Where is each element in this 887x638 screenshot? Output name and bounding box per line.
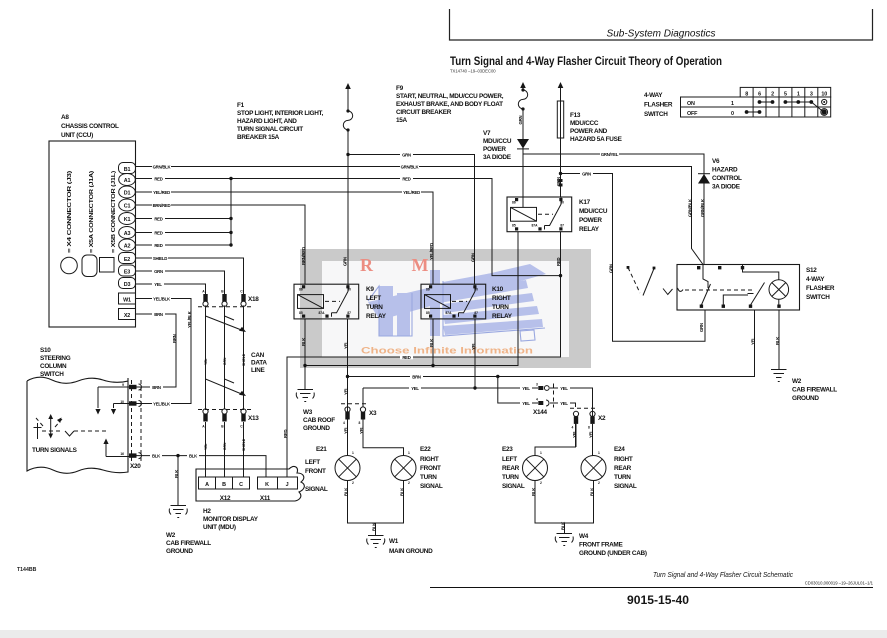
X20 connector pins (120, 380, 141, 462)
node F13 junction (559, 172, 562, 175)
svg-text:X13: X13 (248, 415, 259, 422)
header bracket (450, 9, 873, 40)
W2 right ground symbol (771, 370, 787, 382)
svg-text:GRN: GRN (154, 269, 163, 274)
svg-text:RED: RED (154, 216, 162, 221)
svg-text:X11: X11 (260, 495, 271, 502)
svg-text:EXHAUST BRAKE, AND BODY FLOAT: EXHAUST BRAKE, AND BODY FLOAT (396, 101, 503, 108)
pin D3 (119, 278, 136, 289)
svg-text:1: 1 (408, 451, 410, 455)
svg-text:87A: 87A (318, 311, 325, 315)
svg-text:YEL: YEL (411, 386, 419, 391)
svg-text:3A DIODE: 3A DIODE (712, 184, 741, 191)
svg-text:RIGHT: RIGHT (614, 456, 633, 463)
wire E23 E24 ground to W4 (535, 481, 594, 534)
svg-text:8: 8 (359, 421, 361, 425)
svg-text:BRN/RED: BRN/RED (153, 203, 171, 208)
pin A1 (119, 174, 136, 186)
svg-text:DATA: DATA (251, 360, 267, 367)
svg-text:W1: W1 (389, 538, 399, 545)
E23 label (502, 446, 525, 490)
svg-text:Turn Signal and 4-Way Flasher: Turn Signal and 4-Way Flasher Circuit Sc… (653, 572, 793, 579)
svg-text:87: 87 (560, 224, 564, 228)
pin A3 (119, 227, 136, 239)
S10 steering column switch box wavy (27, 377, 128, 473)
A8 chassis control unit box (49, 141, 136, 327)
svg-text:GRN: GRN (223, 442, 227, 450)
wire CAN lines X18 to X13 to MDU (206, 306, 244, 478)
svg-text:D1: D1 (124, 191, 131, 197)
svg-text:J: J (286, 482, 289, 488)
svg-text:COLUMN: COLUMN (40, 363, 67, 370)
V6 label (712, 158, 742, 191)
F1 label (237, 102, 323, 141)
X11 pin boxes K J (258, 477, 298, 489)
svg-text:Choose Infinite Information: Choose Infinite Information (361, 346, 533, 356)
svg-text:YEL: YEL (154, 282, 162, 287)
svg-text:X3: X3 (369, 410, 377, 417)
svg-text:1: 1 (540, 451, 542, 455)
svg-text:YEL: YEL (359, 426, 364, 434)
svg-text:3A DIODE: 3A DIODE (483, 154, 512, 161)
svg-text:C: C (239, 482, 243, 488)
pin C1 (119, 199, 136, 211)
svg-text:Sub-System Diagnostics: Sub-System Diagnostics (607, 29, 716, 40)
svg-text:87: 87 (347, 311, 351, 315)
pin X2 (119, 309, 136, 320)
W1 label (389, 538, 433, 555)
svg-text:1: 1 (797, 92, 800, 98)
svg-text:T144BB: T144BB (17, 567, 37, 573)
connector X13 (198, 409, 252, 429)
S12 top pin squares (697, 266, 744, 269)
svg-text:2: 2 (598, 481, 600, 485)
svg-text:4-WAY: 4-WAY (644, 92, 663, 99)
wire BRN/RED net C1 to K9-86 (136, 205, 306, 284)
H2 label (203, 508, 259, 531)
svg-text:E24: E24 (614, 446, 625, 453)
svg-text:4: 4 (536, 398, 538, 402)
svg-text:RED: RED (154, 243, 162, 248)
svg-text:GRN/BLK: GRN/BLK (700, 198, 705, 217)
svg-text:TURN SIGNALS: TURN SIGNALS (32, 447, 78, 454)
node left bus junctions (346, 375, 500, 378)
V7 diode (517, 139, 529, 149)
W2 right label (792, 378, 837, 402)
pin K1 (119, 213, 136, 225)
svg-text:GRN/BLK: GRN/BLK (688, 198, 693, 217)
S12 lamp feed wire (743, 265, 779, 280)
svg-text:A1: A1 (124, 178, 131, 184)
svg-text:YEL: YEL (572, 430, 577, 438)
W2 left ground symbol (169, 506, 187, 518)
svg-text:LINE: LINE (251, 367, 265, 374)
wire F13 vertical to K17-30 (560, 88, 562, 197)
svg-text:= X5B CONNECTOR (J1L): = X5B CONNECTOR (J1L) (111, 170, 117, 253)
CAN twist upper (206, 316, 247, 332)
svg-text:= X4 CONNECTOR (J3): = X4 CONNECTOR (J3) (67, 170, 73, 253)
K10 label (492, 286, 513, 320)
svg-text:A2: A2 (124, 244, 131, 250)
svg-text:FLASHER: FLASHER (644, 102, 673, 109)
svg-text:TX14740 –19–03DEC00: TX14740 –19–03DEC00 (450, 69, 496, 74)
wire RED net K17-87 down to MDU-J (287, 232, 561, 477)
svg-text:8: 8 (745, 92, 748, 98)
svg-text:CAB FIREWALL: CAB FIREWALL (166, 540, 211, 547)
svg-text:FRONT FRAME: FRONT FRAME (579, 542, 623, 549)
svg-text:30: 30 (347, 288, 351, 292)
svg-text:YEL: YEL (751, 337, 756, 345)
svg-text:F13: F13 (570, 112, 581, 119)
svg-text:GROUND: GROUND (792, 395, 819, 402)
svg-text:2: 2 (352, 481, 354, 485)
wire color labels mid-page repeats (150, 152, 619, 459)
svg-text:X2: X2 (124, 313, 130, 319)
svg-text:GRN/YEL: GRN/YEL (601, 152, 619, 157)
svg-text:ON: ON (687, 101, 695, 107)
svg-text:K9: K9 (366, 286, 374, 293)
svg-text:YEL: YEL (204, 444, 208, 450)
svg-text:MAIN GROUND: MAIN GROUND (389, 548, 433, 555)
svg-text:RED: RED (556, 258, 561, 266)
svg-text:V7: V7 (483, 130, 491, 137)
W3 label (303, 409, 335, 432)
svg-text:FRONT: FRONT (420, 465, 441, 472)
svg-text:E2: E2 (124, 257, 130, 263)
svg-text:87A: 87A (445, 311, 452, 315)
svg-text:BLK: BLK (400, 487, 405, 496)
svg-text:UNIT (MDU): UNIT (MDU) (203, 524, 236, 531)
svg-text:POWER: POWER (483, 146, 506, 153)
svg-text:C1: C1 (124, 204, 131, 210)
svg-text:YEL/BLK: YEL/BLK (153, 296, 171, 301)
svg-text:X2: X2 (598, 415, 606, 422)
F1 circuit breaker symbol (343, 83, 352, 132)
svg-text:V6: V6 (712, 158, 720, 165)
svg-text:YEL: YEL (344, 341, 349, 349)
svg-text:SWITCH: SWITCH (644, 111, 668, 118)
wire E21 feed through X3 (347, 420, 349, 456)
svg-text:BLK: BLK (344, 487, 349, 496)
svg-text:W2: W2 (792, 378, 802, 385)
svg-text:1: 1 (731, 101, 734, 107)
svg-text:RED: RED (154, 176, 162, 181)
wire YEL net D3 to X18-a (136, 284, 206, 294)
wire GRN net E3 to X18-b (136, 271, 225, 294)
svg-text:POWER: POWER (579, 217, 602, 224)
svg-text:BLK: BLK (561, 521, 566, 530)
watermark outer gray frame (300, 249, 591, 368)
svg-text:87A: 87A (531, 224, 538, 228)
svg-text:X18: X18 (248, 296, 259, 303)
svg-text:2: 2 (408, 481, 410, 485)
node BLK junction (176, 454, 179, 457)
wire SHIELD net E2 to X18-c (136, 258, 244, 294)
svg-text:4-WAY: 4-WAY (806, 276, 825, 283)
svg-text:YEL/RED: YEL/RED (153, 190, 170, 195)
CAN DATA LINE label (251, 352, 267, 374)
relay K17 (507, 197, 572, 232)
wire YEL/BLK net W1 to X20-2 (136, 299, 192, 404)
svg-text:10: 10 (120, 400, 124, 404)
svg-text:GRN: GRN (582, 171, 591, 176)
wire RED bus verticals A1 K1 A3 A2 (136, 179, 232, 246)
svg-text:9: 9 (122, 383, 124, 387)
wire GRN/YEL net V7 to V6 (523, 154, 704, 265)
svg-text:A3: A3 (124, 231, 131, 237)
svg-text:BRN: BRN (154, 312, 163, 317)
svg-text:8: 8 (588, 426, 590, 430)
wire S12 lamp ground to W2 (778, 310, 780, 369)
svg-text:FRONT: FRONT (305, 468, 326, 475)
wire BRN net X2 to X20-1 (136, 314, 177, 387)
svg-text:BREAKER 15A: BREAKER 15A (237, 134, 280, 141)
svg-text:S12: S12 (806, 267, 817, 274)
W1 ground symbol (367, 536, 385, 548)
svg-text:1: 1 (598, 451, 600, 455)
F9 circuit breaker symbol (518, 82, 527, 111)
svg-text:RED: RED (402, 355, 410, 360)
H2 monitor display unit box wavy (196, 466, 304, 501)
wire right turn YEL net K10-87 (363, 319, 593, 420)
wire color labels on CCU pin wires (152, 164, 172, 317)
svg-text:YEL/BLK: YEL/BLK (153, 401, 171, 406)
svg-text:SIGNAL: SIGNAL (420, 483, 443, 490)
relay K9 (294, 284, 359, 319)
svg-text:GRN: GRN (402, 152, 411, 157)
svg-text:HAZARD 5A FUSE: HAZARD 5A FUSE (570, 136, 623, 143)
svg-text:CONTROL: CONTROL (712, 175, 742, 182)
svg-text:RELAY: RELAY (492, 313, 513, 320)
svg-text:9015-15-40: 9015-15-40 (627, 595, 689, 607)
svg-text:BLK: BLK (189, 453, 198, 458)
svg-text:H2: H2 (203, 508, 211, 515)
svg-text:CAB FIREWALL: CAB FIREWALL (792, 387, 837, 394)
svg-text:K17: K17 (579, 199, 591, 206)
node F1 junction (346, 153, 349, 156)
svg-text:YEL/BLK: YEL/BLK (187, 310, 192, 328)
svg-text:F9: F9 (396, 85, 404, 92)
svg-text:RELAY: RELAY (366, 313, 387, 320)
svg-text:5: 5 (784, 92, 787, 98)
wire GRN/BLK net B1 to S12 (136, 167, 704, 265)
svg-text:S10: S10 (40, 347, 51, 354)
svg-text:4: 4 (572, 426, 574, 430)
svg-text:BLK: BLK (301, 337, 306, 346)
W4 ground symbol (555, 534, 573, 546)
svg-text:YEL: YEL (560, 386, 568, 391)
wire E24 feed below X2 (592, 424, 594, 456)
svg-text:E3: E3 (124, 269, 130, 275)
wire F1 GRN net to K9-30 and K10-30 (348, 88, 475, 284)
wire YEL/RED net D1 to K10-86 (136, 192, 434, 284)
svg-text:GROUND (UNDER CAB): GROUND (UNDER CAB) (579, 550, 647, 557)
S12 switch contact 1 (701, 265, 710, 306)
svg-text:3: 3 (536, 383, 538, 387)
svg-text:TURN: TURN (502, 474, 519, 481)
CAN line labels vertical (204, 353, 246, 366)
legend rounded symbol (82, 255, 97, 277)
E22 label (420, 446, 443, 490)
svg-text:RELAY: RELAY (579, 226, 600, 233)
svg-text:BRN/RED: BRN/RED (301, 247, 306, 265)
svg-text:2: 2 (771, 92, 774, 98)
svg-text:GROUND: GROUND (303, 425, 330, 432)
connector X2 (570, 408, 598, 429)
S10 internal contacts (95, 387, 136, 457)
svg-text:LEFT: LEFT (305, 459, 320, 466)
svg-text:W2: W2 (166, 532, 176, 539)
relay K10 (421, 284, 486, 319)
node junctions RED bus (229, 177, 232, 247)
connector X144 (536, 383, 554, 408)
svg-text:A8: A8 (61, 114, 69, 121)
wire E22 feed branch (363, 388, 404, 456)
connector X18 (198, 290, 252, 307)
svg-text:POWER AND: POWER AND (570, 128, 608, 135)
W4 label (579, 533, 647, 557)
svg-text:GRN: GRN (556, 177, 561, 186)
pin E3 (119, 265, 136, 276)
svg-text:YEL: YEL (522, 401, 530, 406)
pin D1 (119, 186, 136, 198)
svg-text:SHIELD: SHIELD (242, 353, 246, 366)
svg-text:TURN: TURN (420, 474, 437, 481)
svg-text:GRN: GRN (609, 264, 614, 273)
svg-text:E21: E21 (316, 446, 327, 453)
svg-text:RED: RED (154, 230, 162, 235)
svg-text:HAZARD LIGHT, AND: HAZARD LIGHT, AND (237, 118, 297, 125)
V7 label (483, 130, 512, 161)
svg-text:TURN: TURN (492, 304, 509, 311)
svg-text:W1: W1 (123, 297, 131, 303)
svg-text:A: A (205, 482, 209, 488)
svg-text:MDU/CCU: MDU/CCU (483, 138, 512, 145)
svg-text:YEL: YEL (522, 386, 530, 391)
svg-text:YEL: YEL (471, 342, 476, 350)
X3 upper feed continues (347, 389, 349, 408)
svg-text:E23: E23 (502, 446, 513, 453)
X12 pin boxes A B C (199, 477, 250, 489)
svg-text:BLK: BLK (590, 487, 595, 496)
S12 4-way flasher switch box (677, 265, 800, 311)
svg-text:F1: F1 (237, 102, 245, 109)
svg-text:1: 1 (352, 451, 354, 455)
K9 label (366, 286, 387, 320)
svg-text:TURN: TURN (366, 304, 383, 311)
F13 fuse symbol (557, 82, 563, 138)
svg-text:MDU/CCU: MDU/CCU (579, 208, 608, 215)
wire BLK net X20-3 to MDU-K and W2 (136, 456, 266, 505)
svg-text:3: 3 (810, 92, 813, 98)
svg-text:2: 2 (540, 481, 542, 485)
W3 ground symbol (296, 390, 314, 402)
wire E21 E22 ground to W1 (348, 481, 404, 536)
svg-text:GRN: GRN (518, 116, 523, 125)
pin B1 (119, 163, 136, 174)
svg-text:YEL: YEL (204, 359, 208, 365)
node right turn junction (473, 386, 476, 389)
flasher mechanism dashes (627, 266, 753, 296)
svg-text:X144: X144 (533, 409, 548, 416)
svg-text:SHIELD: SHIELD (153, 256, 167, 261)
svg-text:86: 86 (426, 288, 430, 292)
legend circle symbol (61, 257, 78, 274)
svg-text:YEL: YEL (560, 401, 568, 406)
svg-text:10: 10 (821, 92, 827, 98)
svg-text:FLASHER: FLASHER (806, 285, 835, 292)
svg-text:B1: B1 (124, 167, 131, 173)
lamp E23 (523, 451, 548, 485)
svg-text:GRN: GRN (343, 257, 348, 266)
S12 bottom pin squares (700, 305, 781, 308)
svg-text:CAN: CAN (251, 352, 265, 359)
X2 connector lower feed (575, 424, 577, 447)
svg-text:BRN: BRN (152, 385, 161, 390)
svg-text:UNIT (CCU): UNIT (CCU) (61, 132, 93, 139)
V6 diode (698, 174, 710, 184)
svg-text:W4: W4 (579, 533, 589, 540)
wire RED net A1 (136, 179, 561, 276)
svg-text:RED: RED (402, 176, 410, 181)
svg-text:YEL/RED: YEL/RED (429, 243, 434, 260)
svg-text:GROUND: GROUND (166, 548, 193, 555)
svg-text:BLK: BLK (775, 336, 780, 345)
svg-text:YEL: YEL (344, 387, 349, 395)
svg-text:4: 4 (343, 421, 345, 425)
S12 label (806, 267, 835, 301)
svg-text:87: 87 (474, 311, 478, 315)
watermark blue logo (368, 264, 546, 336)
CAN twist lower (206, 379, 247, 396)
svg-text:SIGNAL: SIGNAL (305, 486, 328, 493)
svg-text:RIGHT: RIGHT (420, 456, 439, 463)
svg-text:86: 86 (299, 288, 303, 292)
E24 label (614, 446, 637, 490)
svg-text:CHASSIS CONTROL: CHASSIS CONTROL (61, 123, 119, 130)
svg-text:BLK: BLK (372, 522, 377, 531)
svg-text:86: 86 (512, 200, 516, 204)
F13 label (570, 112, 623, 143)
svg-text:SWITCH: SWITCH (806, 294, 830, 301)
K17 label (579, 199, 608, 233)
svg-text:30: 30 (560, 200, 564, 204)
S10 label (40, 347, 71, 378)
svg-text:OFF: OFF (687, 111, 698, 117)
svg-text:85: 85 (512, 224, 516, 228)
svg-text:SHIELD: SHIELD (242, 438, 246, 451)
svg-text:STEERING: STEERING (40, 355, 71, 362)
svg-text:K: K (265, 482, 269, 488)
svg-text:SIGNAL: SIGNAL (502, 483, 525, 490)
W2 left label (166, 532, 211, 555)
svg-text:X20: X20 (130, 463, 141, 470)
svg-text:Turn Signal and 4-Way Flasher: Turn Signal and 4-Way Flasher Circuit Th… (450, 54, 722, 68)
svg-text:HAZARD: HAZARD (712, 167, 738, 174)
wire F9/V7 vertical (522, 88, 524, 208)
svg-text:30: 30 (474, 288, 478, 292)
svg-text:0: 0 (731, 111, 734, 117)
lamp E21 (335, 451, 360, 485)
legend square symbol (100, 258, 115, 273)
pin W1 (119, 293, 136, 304)
svg-text:YEL: YEL (344, 426, 349, 434)
svg-text:SWITCH: SWITCH (40, 371, 64, 378)
svg-text:TURN: TURN (614, 474, 631, 481)
svg-text:CIRCUIT BREAKER: CIRCUIT BREAKER (396, 109, 452, 116)
S10 turn signal lever symbol (34, 414, 107, 439)
svg-text:D3: D3 (124, 282, 131, 288)
